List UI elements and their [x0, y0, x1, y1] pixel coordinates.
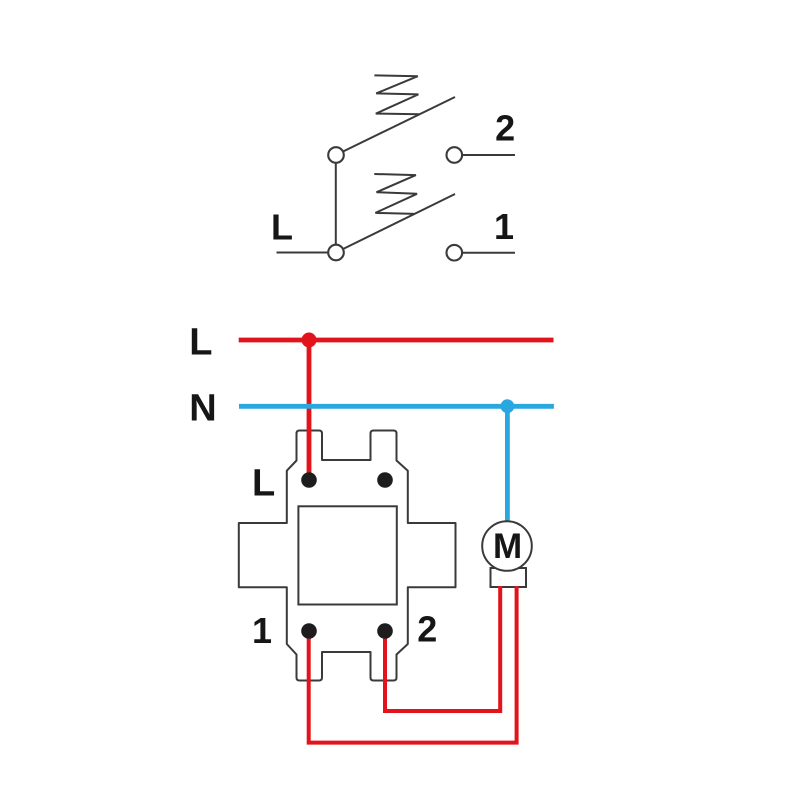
terminal dot upper-right (body)	[377, 472, 393, 488]
switch rocker square	[298, 506, 396, 604]
node: terminal 2 contact circle	[447, 147, 463, 163]
svg-text:L: L	[189, 322, 212, 364]
node: common contact circle (L)	[328, 245, 344, 261]
junction: red dot on L rail	[302, 333, 317, 348]
wire: terminal 1 lead	[463, 252, 515, 254]
switch arm upper (to terminal 2)	[340, 97, 455, 153]
svg-text:L: L	[252, 463, 275, 505]
terminal dot 2 (body)	[377, 623, 393, 639]
switch body outline	[239, 431, 456, 681]
junction: blue dot on N rail	[501, 399, 515, 413]
motor M1 circle	[482, 521, 532, 571]
wire: riser between contacts	[335, 160, 337, 248]
svg-text:2: 2	[495, 107, 515, 148]
terminal dot L (body)	[301, 472, 317, 488]
svg-text:1: 1	[252, 610, 272, 651]
node: terminal 1 contact circle	[447, 245, 463, 261]
svg-text:L: L	[271, 207, 293, 248]
motor terminal block	[491, 568, 527, 587]
svg-text:M: M	[493, 527, 522, 566]
wire: blue drop from N rail to motor	[505, 406, 510, 521]
svg-text:N: N	[189, 388, 216, 430]
wire: terminal 2 lead	[463, 154, 515, 156]
wire: red drop from L rail to terminal L	[307, 340, 312, 477]
wire: L lead to common contact	[277, 252, 331, 254]
svg-text:1: 1	[494, 206, 514, 247]
wire: red from motor left pin to terminal 2	[385, 586, 500, 711]
wire: L rail (red)	[239, 338, 554, 343]
node: upper pivot contact circle	[328, 147, 344, 163]
terminal dot 1 (body)	[301, 623, 317, 639]
wire: red from motor right pin to terminal 1	[309, 586, 517, 743]
wire: N rail (blue)	[239, 404, 554, 409]
spring lower	[374, 174, 417, 214]
switch arm lower (to terminal 1)	[340, 194, 455, 251]
spring upper	[374, 75, 419, 114]
svg-text:2: 2	[417, 609, 437, 650]
